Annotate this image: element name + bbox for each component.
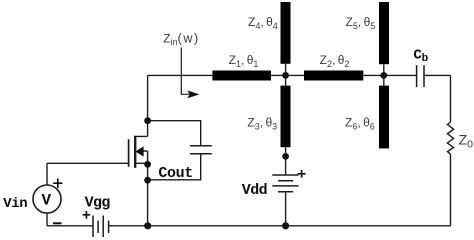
svg-text:Z2, θ2: Z2, θ2 (320, 53, 350, 69)
svg-text:Z4, θ4: Z4, θ4 (248, 15, 278, 31)
svg-text:Z3, θ3: Z3, θ3 (247, 116, 277, 132)
svg-text:Vdd: Vdd (242, 182, 267, 199)
svg-text:Z1, θ1: Z1, θ1 (229, 53, 259, 69)
svg-text:Z6, θ6: Z6, θ6 (345, 116, 375, 132)
svg-text:b: b (422, 53, 429, 65)
svg-text:Z0: Z0 (459, 132, 474, 151)
svg-text:Vgg: Vgg (85, 195, 111, 212)
svg-text:Z5, θ5: Z5, θ5 (346, 15, 376, 31)
svg-text:Vin: Vin (3, 196, 27, 212)
svg-text:V: V (42, 191, 52, 209)
svg-text:Zin(w): Zin(w) (163, 32, 200, 48)
svg-text:Cout: Cout (158, 165, 192, 182)
